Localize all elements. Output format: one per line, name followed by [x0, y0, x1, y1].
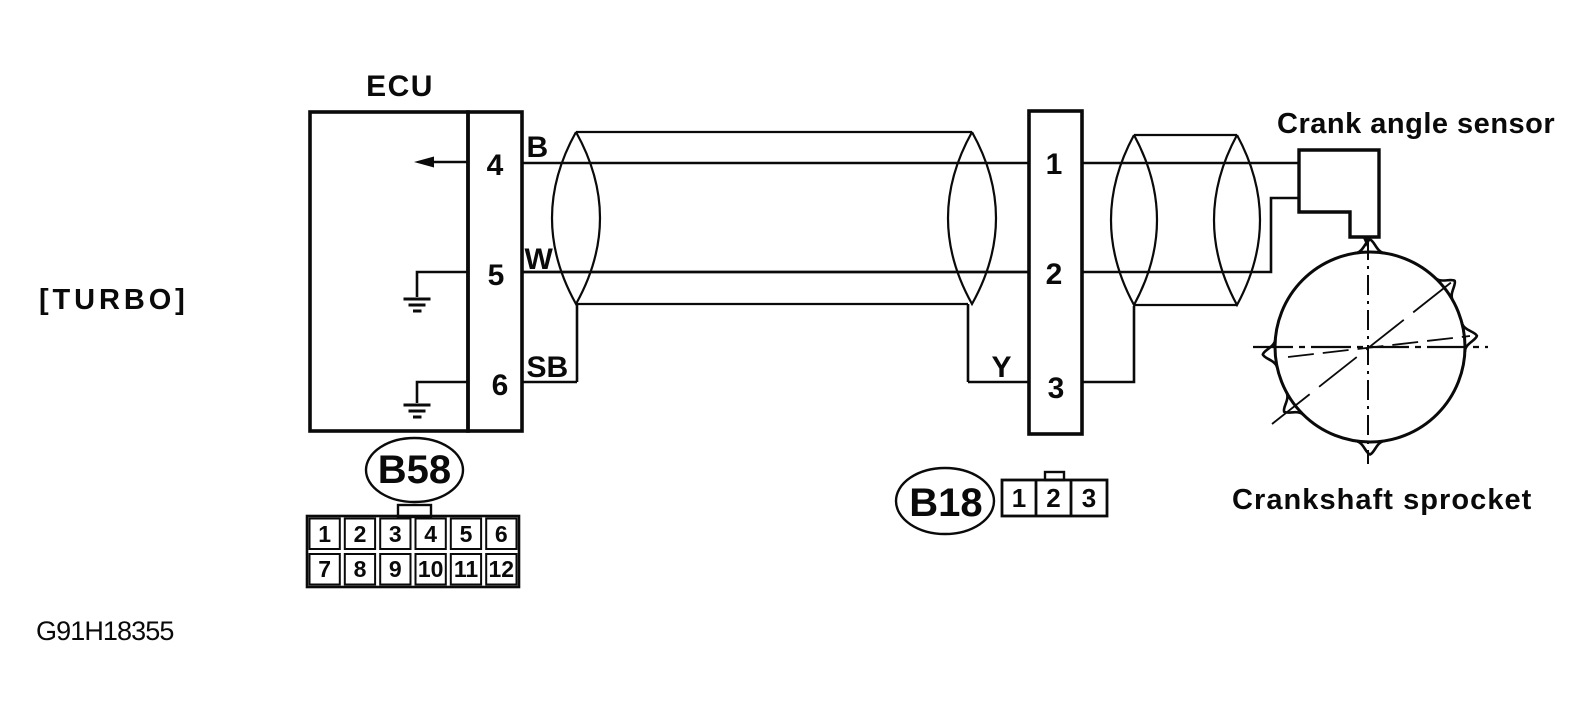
svg-text:6: 6	[492, 369, 509, 402]
svg-text:Y: Y	[992, 351, 1012, 384]
wire pin5 to ground	[417, 272, 468, 297]
svg-text:2: 2	[1046, 483, 1060, 513]
svg-text:[TURBO]: [TURBO]	[39, 284, 189, 316]
sensor tip	[1363, 238, 1371, 247]
shield 1 left riser	[576, 304, 579, 382]
shield 1 bottom line	[577, 303, 968, 305]
svg-text:2: 2	[1046, 258, 1063, 291]
svg-text:12: 12	[489, 556, 515, 582]
svg-text:2: 2	[354, 521, 367, 547]
sprocket tooth top	[1355, 240, 1385, 254]
wire W : pin 5 to pin 2	[522, 271, 1029, 274]
B58 pinout cells	[310, 519, 517, 585]
wire pin 1 to sensor	[1082, 162, 1299, 165]
sprocket vertical centre line	[1367, 240, 1369, 464]
ECU box	[310, 112, 468, 431]
shield 2 right ellipse	[1214, 135, 1260, 305]
sprocket horizontal centre line	[1253, 346, 1488, 348]
svg-text:Crankshaft sprocket: Crankshaft sprocket	[1232, 484, 1532, 516]
connector oval B58	[366, 438, 463, 502]
svg-text:B: B	[527, 131, 549, 164]
svg-text:7: 7	[318, 556, 331, 582]
svg-text:5: 5	[460, 521, 473, 547]
wire B : pin 4 to pin 1	[522, 162, 1029, 165]
svg-text:3: 3	[1048, 372, 1065, 405]
B18 pinout outer box	[1002, 480, 1107, 516]
svg-text:6: 6	[495, 521, 508, 547]
B58 cell numbers 1-6	[318, 521, 514, 582]
sprocket diagonal centre line	[1272, 277, 1458, 424]
svg-text:4: 4	[487, 149, 504, 182]
connector strip ECU side (B58) pins 4,5,6	[468, 112, 522, 431]
B18 cell numbers	[1012, 483, 1096, 513]
wire Y : shield to pin 3	[968, 381, 1029, 384]
shield 1 right ellipse	[948, 132, 996, 304]
connector oval B18	[896, 468, 994, 534]
svg-text:8: 8	[354, 556, 367, 582]
signal arrow from pin 4	[433, 161, 468, 164]
shield 1 right riser	[967, 304, 970, 382]
svg-text:4: 4	[424, 521, 437, 547]
B18 pinout tab	[1045, 472, 1064, 480]
wire pin 2 to sensor	[1082, 198, 1299, 272]
svg-text:G91H18355: G91H18355	[36, 616, 174, 646]
shield 2 left ellipse	[1111, 135, 1157, 305]
svg-text:3: 3	[1082, 483, 1096, 513]
B58 pinout tab	[398, 505, 431, 517]
sprocket tooth right	[1462, 322, 1477, 352]
wire pin 3 to shield 2	[1082, 306, 1134, 382]
wire SB : pin 6 to shield	[522, 381, 577, 384]
svg-text:1: 1	[318, 521, 331, 547]
ground (pin 6)	[404, 405, 431, 417]
svg-text:SB: SB	[527, 351, 569, 384]
shield 1 left ellipse	[552, 132, 600, 304]
B18 cell separator 1	[1035, 480, 1038, 516]
sprocket tooth bottom	[1355, 441, 1385, 455]
shield 1 top line	[576, 131, 972, 133]
B18 cell separator 2	[1070, 480, 1073, 516]
crankshaft sprocket circle	[1275, 252, 1465, 442]
svg-text:B58: B58	[378, 448, 451, 492]
wire pin6 to ground	[417, 382, 468, 403]
sprocket tooth left	[1263, 339, 1278, 369]
shield 2 top line	[1134, 134, 1237, 136]
svg-text:1: 1	[1012, 483, 1026, 513]
svg-text:ECU: ECU	[366, 70, 434, 103]
sprocket tooth upper right	[1435, 278, 1455, 301]
shield 2 bottom line	[1134, 304, 1237, 306]
B58 pinout outer box	[307, 516, 519, 587]
ground (pin 5)	[404, 299, 431, 311]
svg-text:5: 5	[488, 259, 505, 292]
sprocket tooth lower left	[1284, 392, 1304, 416]
svg-text:10: 10	[418, 556, 444, 582]
svg-text:Crank angle sensor: Crank angle sensor	[1277, 108, 1555, 140]
svg-text:B18: B18	[909, 481, 982, 525]
connector strip B18 pins 1,2,3	[1029, 111, 1082, 434]
svg-text:3: 3	[389, 521, 402, 547]
svg-text:11: 11	[454, 556, 479, 582]
sprocket shallow diagonal line	[1288, 336, 1470, 357]
crank angle sensor body	[1299, 150, 1379, 237]
svg-text:9: 9	[389, 556, 402, 582]
svg-text:1: 1	[1046, 148, 1063, 181]
